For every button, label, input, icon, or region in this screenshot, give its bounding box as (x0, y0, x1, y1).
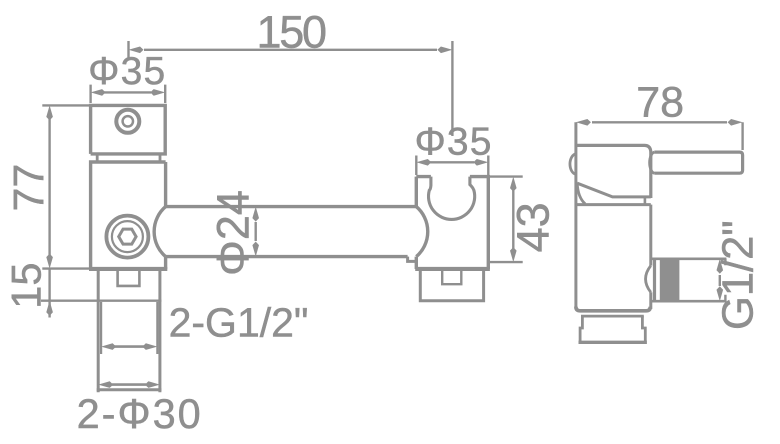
svg-text:2-G1/2": 2-G1/2" (169, 300, 309, 346)
shoulder seam stub (644, 197, 647, 205)
holder outline (416, 177, 488, 269)
clip notch (442, 269, 461, 284)
svg-text:G1/2": G1/2" (715, 220, 763, 330)
bracket top box (91, 105, 166, 153)
dim 43 extensions (489, 177, 523, 263)
fitting top and bottom lines (651, 259, 727, 301)
stub outer walls (98, 271, 160, 392)
bar end fillet arc left (154, 207, 165, 257)
side view body top edge and right edge (576, 145, 651, 198)
svg-text:78: 78 (636, 79, 684, 127)
holder bottom edge (415, 267, 490, 271)
svg-text:15: 15 (2, 263, 49, 309)
main box bottom edge (89, 267, 167, 271)
shoulder diagonal (577, 183, 651, 197)
fitting dimension (719, 275, 721, 286)
cradle cup (428, 177, 474, 220)
fitting fillet arc (646, 266, 651, 293)
dim phi35 left (104, 91, 151, 93)
svg-text:Φ35: Φ35 (88, 50, 166, 93)
step at right junction (408, 257, 417, 262)
lever handle (654, 152, 742, 173)
hex bolt hexagon (119, 229, 136, 244)
base top edge (581, 315, 644, 318)
base steps (580, 316, 645, 341)
svg-text:2-Φ30: 2-Φ30 (77, 390, 203, 437)
svg-text:150: 150 (257, 7, 326, 58)
clip box below holder (420, 269, 483, 301)
dim 77 extensions (42, 105, 89, 268)
lever pivot cap arc (650, 152, 655, 173)
fitting extension hooks (724, 259, 726, 301)
lower body top edge (576, 203, 651, 206)
svg-text:43: 43 (507, 202, 558, 252)
stub collar line / 15 extension (41, 300, 161, 302)
svg-text:77: 77 (5, 164, 53, 212)
stub thread inner lines (101, 302, 157, 354)
svg-text:Φ35: Φ35 (415, 121, 493, 164)
stub bottom edge (97, 388, 162, 391)
neck between boxes (97, 154, 160, 162)
dim 150 left tick (127, 41, 129, 60)
hex bolt outer circle (106, 216, 148, 258)
side body bottom edge (576, 307, 650, 311)
bar end fillet arc right (416, 207, 427, 257)
dim 77 line (48, 118, 50, 318)
G1/2 arrows shaft (113, 345, 145, 348)
side view left bump (570, 154, 576, 174)
dim 150 line (144, 49, 437, 51)
screw hole inner circle (123, 116, 133, 126)
phi30 arrows shaft (112, 383, 146, 386)
bar top edge (166, 205, 417, 208)
shoulder left curve (577, 183, 585, 204)
lower body right edge (649, 205, 652, 309)
bar bottom edge (166, 255, 408, 258)
dim 78 right extension (741, 122, 743, 150)
hex bolt inner circle (112, 221, 143, 252)
dim 78 line (592, 121, 727, 123)
dim 43 line (512, 190, 514, 249)
fitting thread block (660, 258, 680, 303)
bracket main box (91, 162, 166, 269)
screw hole outer circle (116, 110, 139, 133)
dim 15 arrow (46, 301, 53, 316)
dim 150 right extension (451, 41, 453, 136)
base bottom edge (579, 341, 647, 344)
side view body left edge (574, 122, 577, 309)
phi24 dimension (254, 222, 256, 241)
svg-text:Φ24: Φ24 (208, 190, 259, 276)
fitting left shoulder line (653, 259, 656, 301)
tab below main box (118, 269, 140, 286)
dim phi35 right (430, 161, 474, 163)
